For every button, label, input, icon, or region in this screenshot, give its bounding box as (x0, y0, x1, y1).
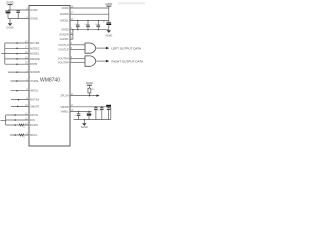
svg-text:ZFLGA: ZFLGA (60, 94, 69, 98)
svg-text:VOUTLN: VOUTLN (58, 43, 69, 47)
svg-text:AVDDL: AVDDL (60, 18, 69, 22)
svg-text:VMIDR: VMIDR (60, 105, 68, 109)
svg-text:RIGHT OUTPUT DATA: RIGHT OUTPUT DATA (112, 60, 144, 64)
svg-text:MODEB: MODEB (30, 70, 40, 74)
svg-text:DGND: DGND (30, 16, 38, 20)
svg-text:MCLK: MCLK (30, 133, 37, 137)
svg-text:LEFT OUTPUT DATA: LEFT OUTPUT DATA (112, 46, 142, 50)
svg-text:AVDD: AVDD (105, 2, 112, 6)
svg-text:AGNDR: AGNDR (59, 33, 68, 37)
svg-text:WM8740: WM8740 (40, 77, 60, 83)
svg-text:VOUTRN: VOUTRN (58, 57, 69, 61)
svg-text:VOUTLP: VOUTLP (58, 47, 69, 51)
svg-text:DGND: DGND (6, 26, 13, 29)
svg-text:DVDD: DVDD (30, 8, 37, 12)
svg-text:SMUTE: SMUTE (30, 104, 39, 108)
svg-text:VMIDL: VMIDL (61, 109, 69, 113)
svg-text:OSRSL: OSRSL (30, 79, 39, 83)
svg-text:AGND: AGND (105, 34, 112, 37)
svg-text:IWOSL: IWOSL (30, 89, 39, 93)
svg-text:MODE1: MODE1 (30, 52, 40, 56)
svg-text:DVDD: DVDD (6, 0, 13, 4)
svg-text:MODE2: MODE2 (30, 46, 40, 50)
svg-text:AVDD: AVDD (62, 6, 69, 10)
svg-text:MUTEB: MUTEB (30, 41, 39, 45)
svg-text:LRCIN: LRCIN (30, 113, 38, 117)
svg-text:AGNDL: AGNDL (60, 37, 69, 41)
svg-text:RSTB: RSTB (30, 62, 37, 66)
svg-text:AGND: AGND (61, 28, 69, 32)
svg-text:VOUTRP: VOUTRP (58, 60, 69, 64)
svg-text:AGND: AGND (81, 126, 88, 129)
svg-text:AVDD: AVDD (86, 81, 93, 85)
svg-text:BCKIN: BCKIN (30, 123, 38, 127)
svg-text:DIN: DIN (30, 118, 35, 122)
svg-text:MUTEA: MUTEA (30, 98, 39, 102)
svg-text:DMODE: DMODE (30, 57, 40, 61)
svg-text:AVDDR: AVDDR (60, 12, 69, 16)
